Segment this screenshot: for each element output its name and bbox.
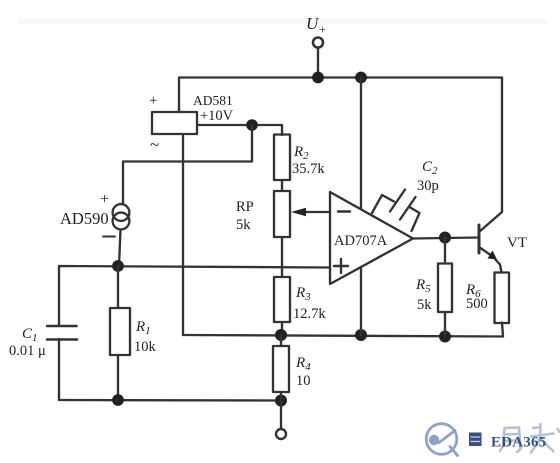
svg-text:R5: R5 (415, 277, 431, 295)
junction R3-R4 (275, 329, 287, 341)
wire op-amp V- drop (360, 267, 362, 335)
svg-text:12.7k: 12.7k (293, 306, 326, 322)
svg-text:R3: R3 (295, 285, 311, 303)
junction R1 bottom (112, 394, 124, 406)
wire +10V to AD590 (123, 125, 252, 205)
wire top supply rail (179, 78, 502, 213)
transistor Q1 VT (479, 212, 502, 273)
svg-text:EDA365: EDA365 (491, 435, 546, 451)
wire non-inverting input net (59, 266, 330, 326)
junction R4 bottom (275, 395, 287, 407)
svg-text:AD581: AD581 (193, 93, 233, 108)
op-amp U1 AD707A (330, 192, 413, 284)
node ground terminal (276, 401, 286, 440)
junction dot at U+ (312, 72, 324, 84)
svg-text:+10V: +10V (200, 108, 234, 124)
svg-text:R1: R1 (135, 319, 151, 337)
svg-text:RP: RP (236, 199, 254, 215)
current source U3 AD590 (113, 204, 130, 229)
junction op-amp V- (355, 329, 367, 341)
decorative faint band (18, 19, 548, 24)
resistor R4 (273, 335, 289, 400)
svg-text:R4: R4 (295, 355, 311, 373)
resistor R1 (110, 266, 130, 400)
resistor R6 (495, 273, 510, 324)
watermark logo (426, 424, 457, 456)
svg-text:R2: R2 (293, 144, 309, 162)
svg-text:500: 500 (466, 296, 488, 312)
wire AD581 output to R2 (197, 125, 282, 135)
watermark faint character long (531, 424, 560, 453)
wire lower mid rail (183, 323, 503, 337)
capacitor C1 (47, 326, 77, 400)
svg-text:5k: 5k (236, 217, 251, 233)
svg-text:10k: 10k (134, 339, 157, 355)
svg-text:C1: C1 (22, 326, 38, 344)
svg-text:U+: U+ (306, 14, 326, 36)
svg-text:AD707A: AD707A (334, 233, 388, 249)
svg-text:AD590: AD590 (60, 209, 109, 228)
node U+ terminal (313, 38, 323, 77)
voltage reference U2 AD581 (152, 112, 197, 134)
wire bottom ground rail (59, 399, 281, 402)
svg-text:30p: 30p (417, 178, 439, 194)
resistor R5 (438, 238, 452, 337)
junction R5 bottom (439, 331, 451, 343)
resistor R3 (274, 267, 290, 335)
wire RP wiper to inverting input (291, 208, 330, 217)
junction node +10V (246, 119, 258, 131)
svg-text:+: + (149, 93, 157, 109)
watermark faint character moon (500, 428, 521, 453)
svg-text:C2: C2 (422, 159, 438, 177)
svg-text:VT: VT (507, 235, 527, 251)
watermark square glyph sun (469, 433, 482, 447)
junction output node (439, 232, 451, 244)
resistor R2 (274, 135, 290, 192)
svg-text:~: ~ (150, 135, 159, 154)
wire op-amp V+ drop (360, 78, 362, 210)
junction dot op-amp V+ (355, 72, 367, 84)
svg-text:5k: 5k (417, 297, 432, 313)
wire AD581 minus to lower rail (182, 134, 184, 335)
label AD590 minus (103, 236, 115, 238)
svg-text:+: + (100, 191, 109, 208)
wire AD590 to node A (119, 230, 121, 267)
svg-text:10: 10 (296, 373, 311, 389)
svg-text:35.7k: 35.7k (292, 161, 325, 177)
wire op-amp output (413, 238, 478, 239)
junction node A (112, 260, 124, 272)
potentiometer RP (274, 191, 290, 267)
capacitor C2 (372, 190, 420, 232)
svg-text:0.01 μ: 0.01 μ (9, 343, 46, 359)
